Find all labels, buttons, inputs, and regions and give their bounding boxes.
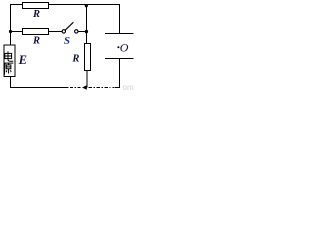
- svg-text:om: om: [123, 83, 134, 90]
- svg-text:R: R: [32, 9, 40, 20]
- svg-text:O: O: [120, 41, 129, 55]
- svg-text:R: R: [32, 36, 40, 47]
- svg-text:R: R: [71, 53, 79, 64]
- svg-text:S: S: [64, 35, 70, 47]
- svg-text:E: E: [18, 53, 27, 67]
